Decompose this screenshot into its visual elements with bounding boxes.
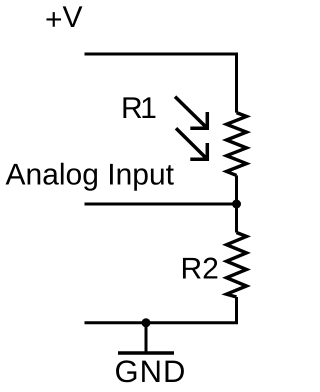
resistor R2	[227, 233, 247, 298]
label R2	[183, 258, 217, 279]
light arrow 1 into photoresistor R1	[175, 97, 207, 129]
resistor R1 (photoresistor element)	[227, 113, 247, 176]
wire R2 bottom to ground rail	[85, 297, 237, 323]
net +V label	[46, 6, 82, 27]
light arrow 2 into photoresistor R1	[176, 128, 207, 159]
label R1	[123, 97, 155, 118]
ground	[118, 351, 174, 355]
wire analog input tap	[85, 203, 237, 206]
wire ground stub	[145, 323, 148, 353]
node junction R1/R2/analog input	[232, 200, 241, 209]
wire top rail from +V supply to R1 top	[85, 54, 237, 113]
node ground junction	[142, 318, 151, 327]
label GND	[116, 360, 184, 382]
wire R1 bottom to analog input node	[235, 175, 238, 204]
wire node to R2 top	[235, 204, 238, 233]
label Analog Input	[6, 163, 174, 191]
